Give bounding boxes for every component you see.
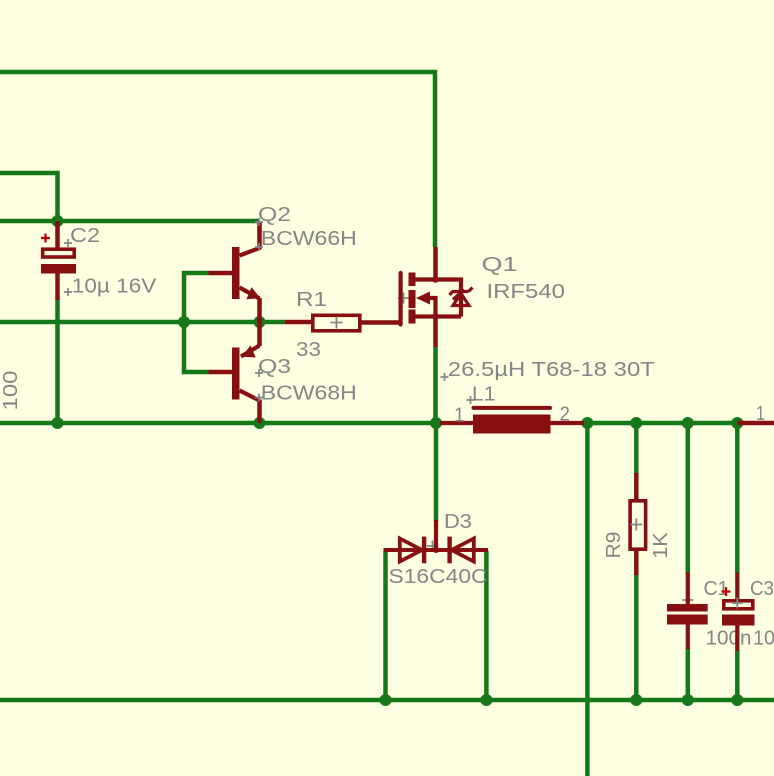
- junction (687.8,423): [682, 417, 694, 429]
- junction (57.5,221): [52, 215, 64, 227]
- junction (687.8,700): [682, 694, 694, 706]
- svg-text:Q3: Q3: [258, 356, 291, 378]
- wire upper-left stub: [0, 173, 58, 221]
- junction (184,322): [178, 316, 190, 328]
- origin cross C3: [732, 598, 743, 609]
- wire C1 bottom: [686, 648, 691, 700]
- wire C3 bottom: [735, 650, 740, 700]
- mosfet Q1: [401, 247, 473, 347]
- svg-text:S16C40C: S16C40C: [389, 566, 488, 588]
- wire D3 stem: [434, 423, 439, 521]
- wire C1 top: [686, 423, 691, 573]
- junction (486.4,700): [480, 694, 492, 706]
- origin cross L1 name: [467, 396, 475, 404]
- origin cross Q3: [255, 369, 263, 377]
- svg-text:1: 1: [756, 403, 765, 425]
- transistor Q2: [209, 222, 261, 322]
- origin cross R1: [331, 317, 343, 329]
- junction (57.5,423): [52, 417, 64, 429]
- pin right edge: [737, 421, 774, 426]
- svg-text:D3: D3: [444, 511, 472, 533]
- origin cross C2 value: [64, 288, 72, 296]
- origin cross D3: [427, 541, 438, 552]
- resistor R9: [630, 473, 646, 575]
- wire base bracket: [184, 273, 209, 372]
- wire R9 top: [634, 423, 639, 474]
- wire mid bus right: [584, 421, 738, 426]
- svg-text:2: 2: [560, 404, 571, 426]
- svg-text:1K: 1K: [650, 532, 672, 559]
- svg-text:100: 100: [0, 371, 22, 411]
- svg-text:33: 33: [296, 339, 321, 361]
- capacitor C1: [667, 572, 708, 649]
- svg-text:10µ 16V: 10µ 16V: [72, 275, 157, 297]
- origin cross L1 value: [441, 373, 449, 381]
- diode D3: [384, 520, 489, 563]
- wire D3 right leg: [484, 551, 489, 700]
- svg-text:C2: C2: [70, 225, 100, 247]
- capacitor C2: [41, 221, 76, 300]
- junction (587.4,423): [581, 417, 593, 429]
- origin cross C2 name: [64, 239, 72, 247]
- junction (737.3,700): [731, 694, 743, 706]
- wire base net: [0, 320, 285, 325]
- svg-text:C3: C3: [750, 578, 774, 600]
- origin cross Q2 value: [255, 243, 263, 251]
- wire R9 bottom: [634, 574, 639, 700]
- svg-text:R1: R1: [296, 289, 327, 311]
- junction (636.3,700): [630, 694, 642, 706]
- wire C2 top net: [0, 219, 260, 224]
- capacitor C3: [722, 573, 755, 652]
- wire C2 bottom: [55, 299, 60, 423]
- wire Q1 source: [433, 346, 438, 423]
- junction (636.3,423): [630, 417, 642, 429]
- wire D3 left leg: [383, 551, 388, 700]
- svg-text:C1: C1: [704, 578, 729, 600]
- wire bottom bus: [0, 698, 774, 703]
- origin cross Q1: [398, 293, 409, 304]
- junction (737.3,423): [731, 417, 743, 429]
- origin cross C1: [682, 595, 693, 606]
- junction (385.5,700): [380, 694, 392, 706]
- wire mid bus left: [0, 421, 439, 426]
- origin cross R9: [630, 519, 642, 531]
- inductor L1: [440, 408, 584, 434]
- wire C3 top: [735, 423, 740, 573]
- svg-text:BCW66H: BCW66H: [261, 228, 357, 250]
- svg-text:BCW68H: BCW68H: [261, 382, 357, 404]
- origin cross Q2: [255, 218, 263, 226]
- junction (259.5,322): [254, 316, 266, 328]
- svg-text:100n: 100n: [706, 627, 752, 649]
- junction (436,423): [430, 417, 442, 429]
- svg-text:L1: L1: [472, 384, 496, 406]
- junction (259.5,423): [254, 417, 266, 429]
- transistor Q3: [209, 322, 260, 423]
- wire top rail: [0, 72, 435, 247]
- svg-text:Q1: Q1: [482, 254, 518, 276]
- svg-text:26.5µH T68-18 30T: 26.5µH T68-18 30T: [448, 359, 655, 381]
- svg-text:IRF540: IRF540: [487, 281, 566, 303]
- origin cross Q3 value: [255, 394, 263, 402]
- wire center drop: [585, 423, 590, 776]
- resistor R1: [285, 315, 402, 331]
- svg-text:10: 10: [753, 627, 774, 649]
- svg-text:1: 1: [454, 405, 465, 427]
- svg-text:R9: R9: [603, 532, 625, 559]
